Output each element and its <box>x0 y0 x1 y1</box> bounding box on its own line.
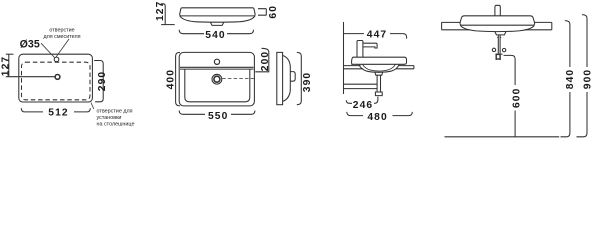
svg-text:60: 60 <box>268 5 279 19</box>
drain hole ring <box>55 75 60 80</box>
siphon trap lip <box>495 53 502 55</box>
drain stub front <box>495 32 506 35</box>
countertop cut-out dashed rect <box>22 62 91 100</box>
dimension 512 line <box>21 108 90 112</box>
bowl bulge <box>283 55 291 101</box>
svg-text:отверстие для: отверстие для <box>97 109 133 115</box>
dimension 550 line with hooks <box>179 111 255 115</box>
svg-text:512: 512 <box>48 108 68 119</box>
inner ledge upper line <box>180 66 254 68</box>
dimension 900 line lower with floor hook <box>577 92 588 137</box>
svg-text:840: 840 <box>565 69 576 89</box>
bowl inner line (side) <box>363 64 396 71</box>
right mounting bolt <box>502 48 505 51</box>
svg-text:390: 390 <box>302 72 313 92</box>
side tab <box>290 72 295 82</box>
dimension 127 line (left) <box>8 54 10 76</box>
dimension 600 lower line <box>514 111 516 137</box>
bowl outline (side) <box>359 64 399 72</box>
dimension 200 bracket (right) <box>255 48 268 72</box>
basin rim band (side) <box>352 57 407 64</box>
wall line <box>343 22 345 94</box>
dimension 400 bracket (left) <box>176 52 180 106</box>
dimension 840 line lower with floor hook <box>561 92 570 137</box>
bowl underside front <box>460 25 534 31</box>
dimension 540 line with hooks <box>179 30 253 34</box>
wall bracket bar <box>344 84 378 88</box>
dimension 127 bottom tick <box>161 24 175 26</box>
svg-text:600: 600 <box>511 88 522 108</box>
leader from mixer label to faucet hole <box>56 39 69 57</box>
floor line <box>445 136 560 138</box>
svg-text:127: 127 <box>155 1 166 21</box>
svg-text:127: 127 <box>1 56 12 76</box>
pipe foot flange <box>375 92 382 96</box>
countertop slab top line <box>344 65 414 67</box>
pipe union nut <box>497 37 501 39</box>
drain inner ring <box>214 76 220 82</box>
dimension 600 hook from trap <box>504 55 516 85</box>
svg-text:отверстие: отверстие <box>49 28 74 34</box>
drain stub <box>210 22 223 25</box>
left mounting bolt <box>492 48 495 51</box>
svg-text:447: 447 <box>367 29 387 40</box>
svg-text:290: 290 <box>97 71 108 91</box>
countertop slab right end cap <box>413 66 415 69</box>
svg-text:для смесителя: для смесителя <box>43 34 80 40</box>
dimension 900 line upper <box>582 15 587 67</box>
faucet spout <box>363 43 377 48</box>
svg-text:200: 200 <box>260 51 271 71</box>
outer rim rounded rect <box>179 52 254 106</box>
countertop slab left <box>442 22 470 29</box>
basin rim band front <box>460 16 535 25</box>
dimension 127 line (left of view 2) <box>161 4 165 25</box>
drain stub (side) <box>375 72 383 75</box>
siphon trap box <box>496 54 500 59</box>
svg-text:400: 400 <box>165 69 176 89</box>
countertop slab right <box>525 22 552 29</box>
svg-text:Ø35: Ø35 <box>20 38 40 50</box>
drain pipe <box>377 75 380 92</box>
svg-text:550: 550 <box>208 111 228 122</box>
basin outline rounded rect <box>19 54 93 102</box>
faucet front <box>495 5 500 16</box>
dashed leader from drain to right <box>222 78 254 80</box>
dimension 127 top tick <box>6 53 14 55</box>
svg-text:установки: установки <box>97 115 122 121</box>
drain outer circle <box>212 74 222 84</box>
svg-text:246: 246 <box>353 100 373 111</box>
svg-text:480: 480 <box>367 112 387 123</box>
dimension 390 bracket <box>297 52 302 104</box>
drain pipe front <box>498 35 500 54</box>
back plate rect <box>277 52 283 104</box>
siphon trap feet <box>496 58 501 60</box>
dimension 480 line <box>347 112 413 116</box>
dimension 60 ticks (right of view 2) <box>258 9 266 16</box>
rim band trapezoid <box>180 8 255 16</box>
leader from installation label to dashed corner <box>91 103 94 109</box>
faucet body <box>357 41 363 58</box>
faucet hole <box>214 59 219 64</box>
svg-text:на столешнице: на столешнице <box>97 122 135 128</box>
faucet hole circle <box>54 57 59 62</box>
countertop slab bottom line <box>344 68 414 70</box>
svg-text:540: 540 <box>205 30 225 41</box>
leader from Ø35 to faucet hole <box>41 43 55 57</box>
dimension 127 bottom tick to drain <box>6 76 55 78</box>
inner ledge lower line <box>180 68 254 70</box>
dimension 447 line <box>344 34 407 39</box>
dimension 246 line <box>346 97 378 104</box>
dimension 290 bracket (right) <box>94 61 103 102</box>
dimension 840 line upper <box>565 21 570 67</box>
bowl underside curve <box>180 16 255 22</box>
svg-text:900: 900 <box>582 69 593 89</box>
inner bowl rounded rect <box>185 69 250 102</box>
